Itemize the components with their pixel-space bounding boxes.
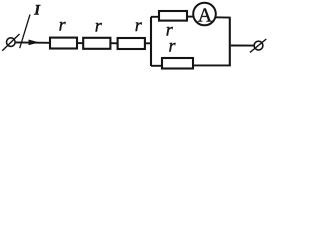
svg-text:r: r bbox=[169, 36, 177, 56]
svg-text:r: r bbox=[135, 15, 143, 35]
svg-text:r: r bbox=[59, 15, 67, 35]
svg-text:r: r bbox=[95, 16, 103, 36]
svg-text:A: A bbox=[198, 5, 213, 27]
svg-text:I: I bbox=[33, 3, 41, 19]
